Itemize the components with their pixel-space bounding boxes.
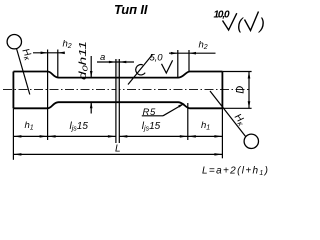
svg-text:L: L (115, 144, 121, 155)
svg-text:Нк: Нк (19, 47, 35, 63)
leader roughness 5,0 (128, 55, 153, 85)
extension line right end (221, 108, 223, 158)
specimen outline (13, 72, 222, 109)
svg-text:h1: h1 (25, 120, 34, 132)
svg-text:h2: h2 (199, 40, 208, 52)
svg-text:a: a (100, 52, 105, 63)
dimension a (97, 61, 134, 63)
svg-text:5,0: 5,0 (150, 53, 164, 64)
extension line right shoulder bottom (187, 103, 189, 140)
svg-text:d0h11: d0h11 (78, 41, 90, 80)
svg-text:Тип II: Тип II (114, 2, 148, 17)
dimension h1 left (13, 135, 47, 137)
extension line left end (12, 108, 14, 160)
R5 underline (142, 115, 163, 117)
dimension d0 h11 (90, 56, 92, 78)
dimension l left (48, 135, 116, 137)
svg-text:L=a+2(l+h1): L=a+2(l+h1) (202, 166, 268, 178)
svg-text:h1: h1 (201, 120, 210, 132)
leader left (17, 49, 30, 95)
extension line left shoulder (47, 50, 49, 141)
roughness check 5,0 (162, 60, 173, 73)
weld line right (118, 59, 120, 143)
svg-text:): ) (258, 16, 265, 33)
dimension L (13, 153, 222, 155)
label Nk right (231, 112, 248, 129)
weld line left (115, 59, 117, 143)
svg-text:ljs15: ljs15 (142, 121, 161, 133)
svg-text:10,0: 10,0 (214, 10, 230, 21)
centerline (3, 89, 250, 91)
extension line D top (222, 71, 251, 73)
extension line left fillet end (57, 50, 59, 78)
extension line right shoulder (188, 50, 190, 72)
balloon left (7, 35, 21, 49)
dimension l right (119, 135, 188, 137)
dimension h2 right (169, 52, 216, 54)
R5 leader (163, 104, 184, 116)
extension line D bottom (222, 107, 251, 109)
svg-text:Нк: Нк (231, 112, 248, 129)
balloon right (244, 134, 258, 148)
extension line right fillet start (177, 50, 179, 78)
leader right (210, 91, 246, 137)
dimension D (248, 72, 250, 109)
roughness symbol check (223, 13, 237, 30)
weld seam fill (116, 59, 119, 102)
hook arc (136, 65, 145, 75)
dimension h2 left (33, 52, 65, 54)
roughness symbol check in parens (245, 12, 259, 31)
label Nk left (19, 47, 35, 63)
dimension h1 right (188, 135, 223, 137)
svg-text:(: ( (237, 16, 244, 33)
svg-text:ljs15: ljs15 (70, 121, 89, 133)
svg-text:D: D (235, 86, 247, 94)
svg-text:h2: h2 (63, 39, 72, 51)
